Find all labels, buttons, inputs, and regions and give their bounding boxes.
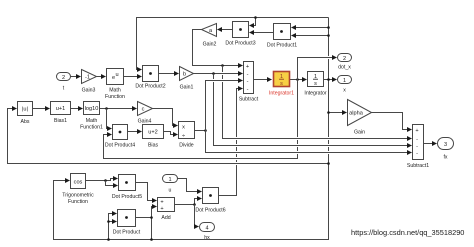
- svg-text:-: -: [247, 87, 249, 93]
- node junction dp output row: [150, 216, 153, 219]
- wire dot_x junction up to outport dot_x: [298, 58, 337, 80]
- math function log10: [80, 102, 103, 131]
- wire Bias output to Divide input2: [164, 132, 178, 135]
- svg-text:Subtract: Subtract: [239, 97, 259, 103]
- outport 1 x: [338, 76, 352, 94]
- wire log10 to Gain4: [100, 108, 137, 110]
- outport 3 fx: [438, 138, 454, 161]
- wire Abs to Bias1: [33, 108, 50, 110]
- dot product Dot Product4: [105, 125, 135, 149]
- svg-text:-: -: [247, 79, 249, 85]
- wire cos junction to Dot Product5 input2: [106, 181, 118, 186]
- node junction bus x: [327, 78, 330, 81]
- svg-text:u+1: u+1: [56, 106, 66, 112]
- node junction on top wire: [254, 16, 257, 19]
- outport 4 hx: [200, 223, 215, 242]
- wire bus to Gain alpha input: [329, 112, 347, 114]
- node bus junction a: [327, 26, 330, 29]
- wire bus to Dot Product1 input2: [292, 35, 329, 37]
- gain Gain3: [82, 70, 97, 94]
- svg-text:Abs: Abs: [21, 119, 30, 125]
- dot product Dot Product1: [267, 24, 297, 49]
- wire divide junction up to Subtract input3: [206, 81, 243, 131]
- svg-text:s: s: [280, 81, 283, 87]
- svg-text:-: -: [416, 144, 418, 150]
- wire inport t to Gain3: [71, 76, 81, 78]
- svg-text:Divide: Divide: [179, 143, 194, 149]
- svg-text:alpha: alpha: [349, 111, 364, 117]
- dot product Dot Product2: [135, 66, 165, 90]
- wire Dot Product5 output to Add input1: [136, 183, 157, 201]
- node junction dot_x: [296, 78, 299, 81]
- wire junction down to Subtract1 input4: [223, 66, 412, 139]
- svg-text:Bias: Bias: [148, 143, 158, 149]
- wire Gain3 to Math Function: [97, 76, 106, 78]
- wire Divide output right-down to Subtract1 input2: [195, 130, 206, 132]
- svg-text:Dot Product1: Dot Product1: [267, 43, 297, 49]
- svg-text:2: 2: [62, 75, 65, 81]
- gain Gain4: [138, 102, 153, 125]
- wire Math Function to Dot Product2 input2: [124, 76, 142, 78]
- svg-text:Add: Add: [161, 215, 170, 221]
- wire Gain1 to Subtract input2: [194, 73, 243, 75]
- inport 2 t: [57, 73, 71, 92]
- node junction add output: [193, 203, 196, 206]
- inport 1 u: [163, 175, 178, 194]
- svg-text:u: u: [115, 72, 118, 78]
- node junction dp inputs: [107, 220, 110, 223]
- bias Bias: [143, 125, 164, 149]
- wire Integrator1 output to Integrator: [290, 79, 307, 81]
- node junction divide output: [204, 129, 207, 132]
- svg-text:dot_x: dot_x: [338, 65, 351, 71]
- svg-text:-: -: [416, 151, 418, 157]
- node junction bus abs row: [327, 162, 330, 165]
- svg-text:x: x: [343, 88, 346, 94]
- svg-text:4: 4: [205, 226, 208, 232]
- svg-text:Dot Product6: Dot Product6: [195, 208, 225, 214]
- dot product Dot Product: [113, 210, 141, 236]
- svg-text:2: 2: [343, 56, 346, 62]
- svg-text:Gain2: Gain2: [203, 42, 217, 48]
- svg-text:Dot Product3: Dot Product3: [225, 41, 255, 47]
- outport 2 dot_x: [338, 54, 352, 71]
- wire Integrator output to outport x: [324, 79, 337, 81]
- svg-text:Dot Product4: Dot Product4: [105, 143, 135, 149]
- svg-text:Bias1: Bias1: [54, 118, 67, 124]
- svg-text:-: -: [416, 137, 418, 143]
- svg-text:s: s: [314, 81, 317, 87]
- svg-text:x: x: [182, 125, 185, 131]
- svg-text:Integrator1: Integrator1: [269, 91, 294, 97]
- svg-text:-1: -1: [85, 75, 90, 81]
- divide Divide: [179, 122, 195, 149]
- node junction Gain2 row: [221, 64, 224, 67]
- dot product Dot Product3: [225, 22, 255, 47]
- svg-text:c: c: [142, 107, 145, 113]
- svg-text:Integrator: Integrator: [304, 91, 326, 97]
- wire bus junction long left row to Abs input: [8, 109, 329, 164]
- svg-text:+: +: [246, 64, 249, 70]
- wire Dot Product output to Add input2: [136, 207, 157, 218]
- svg-text:÷: ÷: [182, 133, 185, 139]
- wire junction down to Subtract1 input3: [214, 74, 412, 146]
- svg-text:-: -: [247, 72, 249, 78]
- svg-text:u: u: [169, 188, 172, 194]
- node junction bus alpha: [327, 111, 330, 114]
- wire top junction down to Dot Product3 input1: [250, 18, 256, 26]
- svg-text:Gain: Gain: [354, 130, 365, 136]
- integrator Integrator1 (highlighted): [269, 72, 294, 97]
- wire inport u to Dot Product6 input1: [178, 179, 202, 192]
- wire junction to Dot Product input2: [109, 221, 117, 223]
- wire Gain alpha output to Subtract1 input1: [372, 113, 412, 130]
- wire bottom row up to Dot Product input1: [109, 214, 117, 240]
- svg-text:Dot Product2: Dot Product2: [135, 84, 165, 90]
- svg-text:Subtract1: Subtract1: [407, 163, 429, 169]
- svg-text:+: +: [415, 128, 418, 134]
- svg-text:log10: log10: [85, 106, 99, 112]
- svg-text:1: 1: [168, 177, 171, 183]
- gain Gain2 (left pointing): [202, 24, 217, 48]
- wire Bias1 to log10: [71, 108, 83, 110]
- wire junction down to Dot Product4 input1: [107, 109, 112, 129]
- svg-text:Dot Product5: Dot Product5: [112, 194, 142, 200]
- svg-text:Math: Math: [109, 88, 121, 94]
- wire Dot Product4 output to Bias: [128, 131, 142, 133]
- dot product Dot Product6: [195, 188, 225, 214]
- svg-text:b: b: [183, 72, 186, 78]
- svg-text:+: +: [160, 200, 163, 206]
- wire Dot Product1 output to Dot Product3 input2: [250, 32, 274, 34]
- node junction Gain1 row: [212, 72, 215, 75]
- node junction bottom row b: [150, 238, 153, 241]
- svg-text:Function: Function: [105, 94, 125, 100]
- node junction log10 row: [105, 107, 108, 110]
- svg-text:Function1: Function1: [80, 125, 103, 131]
- svg-text:https://blog.csdn.net/qq_35518: https://blog.csdn.net/qq_35518290: [351, 228, 464, 237]
- wire Add output to Dot Product6 input2: [175, 199, 202, 205]
- node junction bottom row a: [107, 238, 110, 241]
- svg-text:Math: Math: [86, 118, 98, 124]
- integrator Integrator: [304, 72, 326, 97]
- wire dot_x junction down-left to Dot Product4 input2: [104, 80, 298, 159]
- wire Gain2 output to Subtract input1: [193, 30, 243, 66]
- sum Add: [158, 198, 175, 222]
- wire bus to Dot Product1 input1: [292, 27, 329, 29]
- svg-text:Trigonometric: Trigonometric: [62, 193, 94, 199]
- svg-text:+: +: [160, 206, 163, 212]
- wire Dot Product6 output up to Subtract input4: [219, 89, 243, 196]
- svg-text:Gain1: Gain1: [180, 85, 194, 91]
- node bus junction b: [327, 34, 330, 37]
- wire Dot Product3 output to Gain2 input: [218, 29, 233, 31]
- wire Subtract1 output to outport fx: [424, 143, 437, 145]
- svg-text:Function: Function: [68, 199, 88, 205]
- svg-text:Dot Product: Dot Product: [113, 230, 141, 236]
- wire top x-feedback loop to Dot Product2 input1: [137, 18, 329, 70]
- svg-text:1: 1: [343, 78, 346, 84]
- math function e^u: [105, 69, 125, 101]
- wire main x bus vertical and bottom loop to cos input: [54, 18, 329, 240]
- svg-text:hx: hx: [204, 235, 210, 241]
- node junction cos output: [104, 179, 107, 182]
- wire cos output to Dot Product5 input1: [86, 179, 118, 181]
- wire bottom junction b vertical: [151, 218, 153, 240]
- abs block Abs: [18, 102, 33, 126]
- svg-text:fx: fx: [443, 155, 447, 161]
- svg-text:cos: cos: [74, 179, 83, 185]
- gain Gain1: [180, 67, 194, 91]
- svg-text:|u|: |u|: [22, 107, 28, 113]
- wire Dot Product2 to Gain1: [159, 73, 179, 75]
- wire divide junction down to Subtract1 input4: [206, 131, 412, 153]
- sum Subtract: [239, 62, 259, 103]
- bias Bias1: [51, 102, 71, 125]
- sum Subtract1: [407, 125, 429, 170]
- svg-text:u+2: u+2: [148, 130, 158, 136]
- svg-text:3: 3: [444, 142, 447, 148]
- dot product Dot Product5: [112, 175, 142, 201]
- trigonometric function cos: [62, 174, 94, 206]
- wire Gain4 output down to Divide input1: [153, 109, 178, 126]
- svg-text:Gain4: Gain4: [138, 119, 152, 125]
- wire add junction down to outport hx: [195, 205, 199, 227]
- svg-text:Gain3: Gain3: [82, 88, 96, 94]
- gain alpha: [348, 100, 372, 136]
- wire Subtract output to Integrator1: [254, 79, 272, 81]
